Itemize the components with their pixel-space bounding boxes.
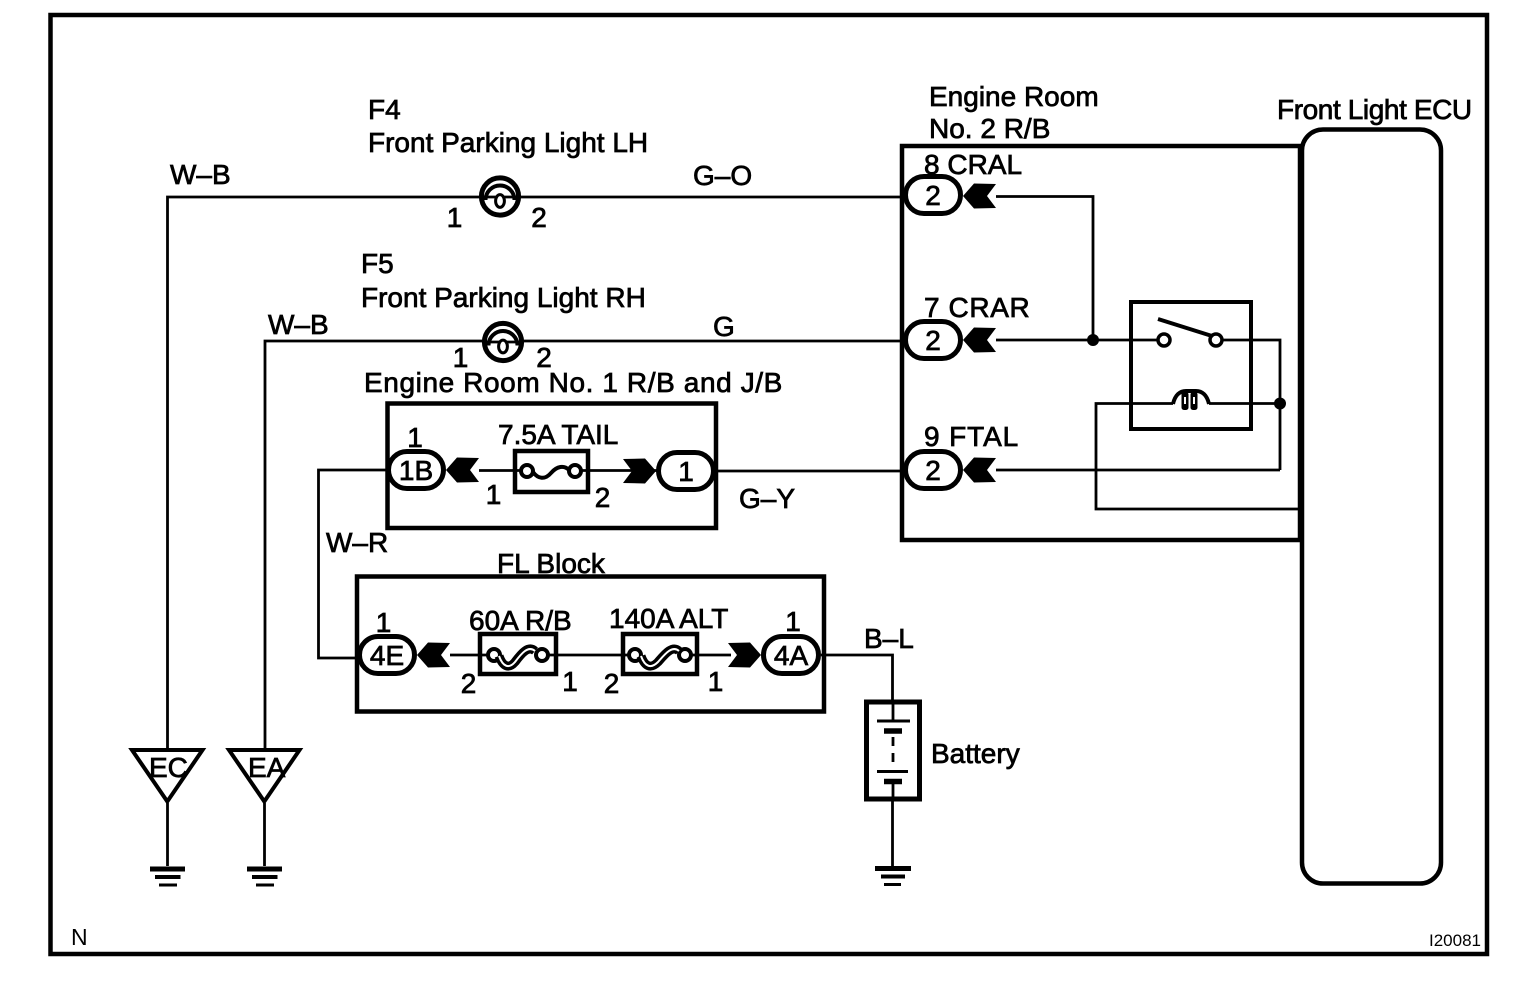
wire fuse 60A to fuse 140A — [548, 654, 629, 657]
ground EC — [132, 750, 203, 885]
arrow into 4A — [728, 643, 761, 668]
label F5 — [361, 248, 646, 313]
svg-text:Engine Room No. 1 R/B and J/B: Engine Room No. 1 R/B and J/B — [364, 367, 783, 398]
relay switch contact left — [1158, 334, 1170, 346]
relay coil — [1173, 391, 1209, 410]
svg-text:2: 2 — [925, 325, 941, 356]
arrow into connector 1 — [623, 459, 656, 484]
svg-text:F4: F4 — [368, 94, 401, 125]
arrow into 9 FTAL — [963, 458, 996, 483]
Front Light ECU box — [1302, 130, 1441, 884]
wire W-B from EA ground to lamp F5 — [265, 341, 484, 749]
arrow into 4E — [417, 643, 450, 668]
svg-text:G: G — [713, 311, 735, 342]
relay switch blade — [1158, 319, 1212, 336]
wire from relay contact to right branch — [1222, 340, 1280, 470]
svg-text:2: 2 — [531, 202, 547, 233]
junction node on coil branch — [1274, 398, 1286, 410]
connector 4E — [360, 637, 415, 674]
connector 1 of No.1 R/B — [659, 453, 714, 490]
svg-text:G–O: G–O — [693, 160, 752, 191]
svg-text:1: 1 — [785, 606, 801, 637]
fuse 7.5A TAIL — [515, 451, 588, 492]
relay box — [1131, 302, 1251, 429]
svg-text:1: 1 — [407, 422, 423, 453]
wire G-Y from connector 1 to 9 FTAL — [716, 470, 903, 473]
lamp F5 Front Parking Light RH — [484, 323, 521, 360]
arrow into 1B — [446, 458, 479, 483]
wire fuse TAIL to connector 1 — [581, 469, 658, 472]
svg-text:Front Parking Light LH: Front Parking Light LH — [368, 127, 648, 158]
svg-text:2: 2 — [461, 668, 477, 699]
FL Block box — [357, 577, 824, 712]
svg-text:2: 2 — [925, 180, 941, 211]
wire B-L from 4A to battery — [821, 655, 893, 702]
wire from 8 CRAL to junction on CRAR wire — [996, 197, 1093, 341]
svg-text:Front Parking Light RH: Front Parking Light RH — [361, 282, 646, 313]
connector 1B — [389, 452, 444, 489]
svg-text:Front Light ECU: Front Light ECU — [1277, 94, 1472, 125]
svg-text:EA: EA — [248, 752, 286, 783]
svg-text:2: 2 — [925, 455, 941, 486]
svg-text:Engine Room: Engine Room — [929, 81, 1099, 112]
fuse 60A R/B — [480, 634, 556, 674]
junction node on CRAR wire — [1087, 334, 1099, 346]
fuse 140A ALT — [623, 634, 697, 674]
wire battery to ground — [891, 799, 894, 866]
relay switch contact right — [1210, 334, 1222, 346]
svg-text:F5: F5 — [361, 248, 394, 279]
svg-text:B–L: B–L — [864, 623, 914, 654]
label Engine Room No. 2 R/B — [929, 81, 1099, 144]
svg-text:G–Y: G–Y — [739, 483, 795, 514]
connector 7 CRAR pin 2 — [906, 322, 961, 359]
Engine Room No. 2 R/B box — [902, 146, 1300, 540]
svg-text:1: 1 — [562, 666, 578, 697]
svg-text:I20081: I20081 — [1429, 931, 1481, 950]
svg-text:60A R/B: 60A R/B — [469, 605, 572, 636]
wire G from lamp F5 to connector 7 CRAR — [522, 340, 903, 343]
wire arrow to fuse 60A — [450, 654, 490, 657]
lamp F4 Front Parking Light LH — [481, 178, 518, 215]
svg-text:W–R: W–R — [326, 527, 388, 558]
svg-text:1: 1 — [708, 666, 724, 697]
wire from 9 FTAL to relay branch — [996, 469, 1280, 472]
connector 8 CRAL pin 2 — [906, 177, 961, 214]
ground EA — [229, 750, 300, 885]
ground below battery — [875, 869, 911, 885]
arrow into 8 CRAL — [963, 184, 996, 209]
svg-text:No. 2 R/B: No. 2 R/B — [929, 113, 1050, 144]
svg-text:N: N — [71, 924, 88, 950]
svg-text:EC: EC — [149, 752, 188, 783]
arrow into 7 CRAR — [963, 328, 996, 353]
wire from 7 CRAR to relay contact — [996, 339, 1158, 342]
svg-text:1: 1 — [486, 479, 502, 510]
svg-text:1B: 1B — [399, 455, 433, 486]
wire arrow to fuse TAIL — [479, 469, 521, 472]
svg-text:1: 1 — [447, 202, 463, 233]
svg-text:7 CRAR: 7 CRAR — [924, 292, 1030, 323]
connector 4A — [764, 637, 819, 674]
svg-text:1: 1 — [376, 607, 392, 638]
wire W-B from EC ground to lamp F4 — [168, 197, 482, 749]
svg-text:W–B: W–B — [170, 159, 231, 190]
wire coil left to ECU — [1096, 404, 1300, 510]
wire fuse 140A to 4A arrow — [691, 654, 731, 657]
svg-text:4A: 4A — [774, 640, 809, 671]
svg-text:140A ALT: 140A ALT — [609, 603, 728, 634]
svg-text:9 FTAL: 9 FTAL — [924, 421, 1019, 452]
Engine Room No. 1 R/B box — [388, 404, 717, 529]
svg-text:Battery: Battery — [931, 738, 1020, 769]
svg-text:1: 1 — [678, 456, 694, 487]
battery — [867, 702, 920, 799]
svg-text:2: 2 — [604, 668, 620, 699]
label F4 — [368, 94, 648, 158]
svg-text:4E: 4E — [370, 640, 404, 671]
svg-text:W–B: W–B — [268, 309, 329, 340]
wire W-R from 1B to 4E — [319, 470, 389, 658]
svg-text:2: 2 — [595, 482, 611, 513]
connector 9 FTAL pin 2 — [906, 452, 961, 489]
wire G-O from lamp F4 to connector 8 CRAL — [519, 196, 903, 199]
svg-text:7.5A TAIL: 7.5A TAIL — [498, 419, 618, 450]
